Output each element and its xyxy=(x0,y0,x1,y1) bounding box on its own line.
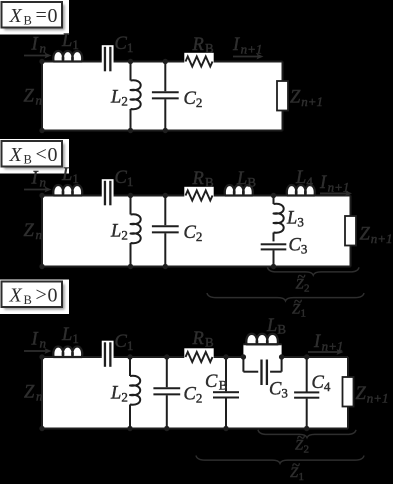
arrow I_n+1 xyxy=(308,349,344,355)
svg-text:1: 1 xyxy=(299,471,305,483)
label C3 xyxy=(269,380,288,401)
svg-text:L: L xyxy=(61,31,72,51)
svg-text:2: 2 xyxy=(121,228,128,243)
svg-text:Z: Z xyxy=(24,221,35,241)
resistor R_B xyxy=(184,53,213,71)
capacitor C3 (tank) xyxy=(258,358,270,387)
label L_B xyxy=(236,169,256,190)
resistor R_B xyxy=(184,187,213,205)
brace Z~2 (circuit 3) xyxy=(258,430,356,438)
svg-text:n: n xyxy=(36,93,43,108)
label L1 xyxy=(61,325,79,346)
label C4 xyxy=(312,373,331,394)
wire xyxy=(281,357,283,372)
wire xyxy=(111,356,186,358)
arrow I_n+1 xyxy=(320,191,352,197)
label C1 xyxy=(115,332,134,353)
current label I_n xyxy=(31,35,47,56)
svg-text:0: 0 xyxy=(48,144,58,166)
brace Z~2 (circuit 2) xyxy=(268,267,360,275)
svg-text:C: C xyxy=(184,223,197,243)
wire xyxy=(350,196,352,217)
svg-text:C: C xyxy=(115,332,128,352)
arrow I_n xyxy=(24,53,52,59)
label C2 xyxy=(184,385,203,406)
svg-text:2: 2 xyxy=(304,444,310,456)
label Z~1 xyxy=(290,458,304,483)
wire xyxy=(41,62,43,131)
svg-text:n+1: n+1 xyxy=(367,391,389,406)
current label I_n+1 xyxy=(319,173,349,195)
svg-text:1: 1 xyxy=(127,40,133,55)
svg-text:B: B xyxy=(277,322,286,337)
label L3 xyxy=(286,209,304,230)
label L1 xyxy=(61,31,79,52)
svg-text:B: B xyxy=(24,13,32,27)
impedance Z_n+1 (load) xyxy=(343,377,354,407)
junction dots circuit 1 xyxy=(39,59,168,133)
label Z_n+1 xyxy=(356,384,389,406)
svg-text:1: 1 xyxy=(301,308,307,320)
wire xyxy=(242,357,244,372)
svg-text:2: 2 xyxy=(196,391,203,406)
svg-text:2: 2 xyxy=(121,390,128,405)
svg-text:L: L xyxy=(236,169,247,189)
label L2 xyxy=(110,222,128,243)
svg-text:C: C xyxy=(115,34,128,54)
svg-text:C: C xyxy=(115,168,128,188)
circuit 2 loop interior xyxy=(42,196,351,267)
label R_B xyxy=(192,329,215,350)
svg-text:X: X xyxy=(9,5,23,27)
label R_B xyxy=(192,35,215,56)
svg-text:C: C xyxy=(205,372,218,392)
arrow I_n xyxy=(24,187,52,193)
svg-text:B: B xyxy=(205,335,214,350)
wire xyxy=(243,343,281,345)
capacitor C_B (shunt) xyxy=(213,357,239,429)
brace Z~1 (circuit 3) xyxy=(196,456,364,464)
svg-text:n: n xyxy=(36,389,43,404)
label L1 xyxy=(61,165,79,186)
wire xyxy=(270,371,282,373)
svg-text:X: X xyxy=(9,144,23,166)
svg-text:n+1: n+1 xyxy=(301,94,323,109)
label box X_B = 0 xyxy=(0,0,69,35)
current label I_n xyxy=(31,169,47,190)
inductor L_B (series) xyxy=(225,185,253,196)
svg-text:n+1: n+1 xyxy=(241,42,263,57)
wire xyxy=(213,356,244,358)
capacitor C2 (shunt) xyxy=(152,62,179,131)
current label I_n+1 xyxy=(313,332,343,354)
svg-text:C: C xyxy=(289,236,302,256)
svg-text:I: I xyxy=(31,330,39,350)
label C1 xyxy=(115,168,134,189)
wire xyxy=(350,246,352,267)
label Z~1 xyxy=(292,295,306,320)
svg-text:X: X xyxy=(9,285,23,307)
label Z_n+1 xyxy=(360,225,393,247)
svg-text:0: 0 xyxy=(48,5,58,27)
svg-text:L: L xyxy=(61,165,72,185)
inductor L2 (shunt) xyxy=(131,196,141,267)
svg-text:n+1: n+1 xyxy=(371,231,393,246)
label Z_n xyxy=(24,87,43,108)
wire xyxy=(282,62,284,82)
svg-text:n: n xyxy=(40,336,47,351)
svg-text:L: L xyxy=(110,384,121,404)
svg-text:C: C xyxy=(184,385,197,405)
impedance Z_n+1 (load) xyxy=(277,81,288,111)
wire xyxy=(347,407,349,429)
svg-text:1: 1 xyxy=(127,174,133,189)
wire xyxy=(42,130,283,132)
inductor L2 (shunt) xyxy=(131,62,141,131)
inductor L1 xyxy=(53,347,82,358)
svg-text:I: I xyxy=(232,35,240,55)
svg-text:1: 1 xyxy=(72,37,79,52)
svg-text:4: 4 xyxy=(306,174,313,189)
label Z~2 xyxy=(295,431,309,456)
label box X_B &gt; 0 xyxy=(0,280,69,315)
junction dots circuit 3 xyxy=(39,354,309,431)
label R_B xyxy=(192,169,215,190)
brace Z~1 (circuit 2) xyxy=(207,293,364,301)
label L2 xyxy=(110,384,128,405)
wire xyxy=(213,195,351,197)
label C2 xyxy=(184,223,203,244)
arrow I_n xyxy=(24,348,52,354)
capacitor C1 xyxy=(102,341,114,369)
label C3 xyxy=(289,236,308,257)
resistor R_B xyxy=(184,348,213,366)
svg-text:R: R xyxy=(192,329,204,349)
svg-text:L: L xyxy=(61,325,72,345)
capacitor C2 (shunt) xyxy=(153,357,180,429)
wire xyxy=(243,371,258,373)
inductor L_B (tank) xyxy=(246,334,278,345)
impedance Z_n+1 (load) xyxy=(345,216,356,246)
label Z_n xyxy=(24,383,43,404)
inductor L1 xyxy=(53,51,82,62)
label Z~2 xyxy=(296,270,310,295)
svg-text:I: I xyxy=(319,173,327,193)
wire xyxy=(42,61,105,63)
svg-text:0: 0 xyxy=(48,285,58,307)
svg-text:Z: Z xyxy=(290,88,301,108)
label Z_n xyxy=(24,221,43,242)
capacitor C1 xyxy=(102,45,114,73)
svg-text:3: 3 xyxy=(297,215,304,230)
svg-text:L: L xyxy=(110,222,121,242)
wire xyxy=(42,266,351,268)
svg-text:Z: Z xyxy=(360,225,371,245)
tank interior (L_B parallel C3) xyxy=(243,344,281,357)
svg-text:1: 1 xyxy=(127,338,133,353)
svg-text:3: 3 xyxy=(281,386,288,401)
wire xyxy=(282,111,284,131)
svg-text:I: I xyxy=(31,169,39,189)
inductor L4 (series) xyxy=(287,185,315,196)
svg-text:Z: Z xyxy=(356,384,367,404)
circuit 3 loop interior xyxy=(42,357,348,429)
current label I_n xyxy=(31,330,47,351)
svg-text:R: R xyxy=(192,169,204,189)
label L4 xyxy=(295,168,313,189)
label L_B xyxy=(266,316,286,337)
svg-text:2: 2 xyxy=(196,229,203,244)
current label I_n+1 xyxy=(232,35,262,57)
svg-text:n: n xyxy=(36,227,43,242)
wire xyxy=(41,196,43,267)
svg-text:Z: Z xyxy=(24,87,35,107)
svg-text:C: C xyxy=(312,373,325,393)
svg-text:I: I xyxy=(313,332,321,352)
svg-text:<: < xyxy=(36,144,47,166)
circuit 1 loop interior xyxy=(42,62,283,131)
svg-text:L: L xyxy=(286,209,297,229)
svg-text:>: > xyxy=(36,284,47,306)
inductor L3 (shunt branch) xyxy=(274,196,284,242)
wire xyxy=(42,428,348,430)
svg-text:=: = xyxy=(36,5,47,27)
wire xyxy=(41,357,43,429)
svg-text:4: 4 xyxy=(324,379,331,394)
junction dots circuit 2 xyxy=(39,193,276,269)
svg-text:C: C xyxy=(184,89,197,109)
wire xyxy=(111,195,186,197)
svg-text:1: 1 xyxy=(72,331,79,346)
svg-text:B: B xyxy=(24,293,32,307)
wire xyxy=(42,356,105,358)
inductor L2 (shunt) xyxy=(130,357,140,429)
svg-text:B: B xyxy=(247,175,256,190)
wire xyxy=(282,356,348,358)
label box X_B &lt; 0 xyxy=(0,139,69,174)
svg-text:I: I xyxy=(31,35,39,55)
svg-text:2: 2 xyxy=(304,283,310,295)
svg-text:1: 1 xyxy=(72,171,79,186)
arrow I_n+1 xyxy=(233,54,264,60)
capacitor C1 xyxy=(102,179,114,207)
svg-text:L: L xyxy=(266,316,277,336)
svg-text:B: B xyxy=(219,378,228,393)
svg-text:R: R xyxy=(192,35,204,55)
label C2 xyxy=(184,89,203,110)
capacitor C4 (shunt) xyxy=(294,357,319,429)
wire xyxy=(42,195,105,197)
svg-text:2: 2 xyxy=(121,94,128,109)
label C_B xyxy=(205,372,228,393)
label Z_n+1 xyxy=(290,88,323,110)
svg-text:Z: Z xyxy=(24,383,35,403)
capacitor C2 (shunt) xyxy=(152,196,179,267)
label L2 xyxy=(110,88,128,109)
svg-text:C: C xyxy=(269,380,282,400)
label C1 xyxy=(115,34,134,55)
wire xyxy=(111,61,186,63)
svg-text:L: L xyxy=(295,168,306,188)
svg-text:3: 3 xyxy=(301,242,308,257)
svg-text:B: B xyxy=(205,41,214,56)
inductor L1 xyxy=(53,185,82,196)
wire xyxy=(213,61,283,63)
capacitor C3 (series with L3) xyxy=(261,243,287,266)
svg-text:2: 2 xyxy=(196,95,203,110)
svg-text:L: L xyxy=(110,88,121,108)
svg-text:B: B xyxy=(205,175,214,190)
svg-text:B: B xyxy=(24,152,32,166)
wire xyxy=(347,357,349,377)
